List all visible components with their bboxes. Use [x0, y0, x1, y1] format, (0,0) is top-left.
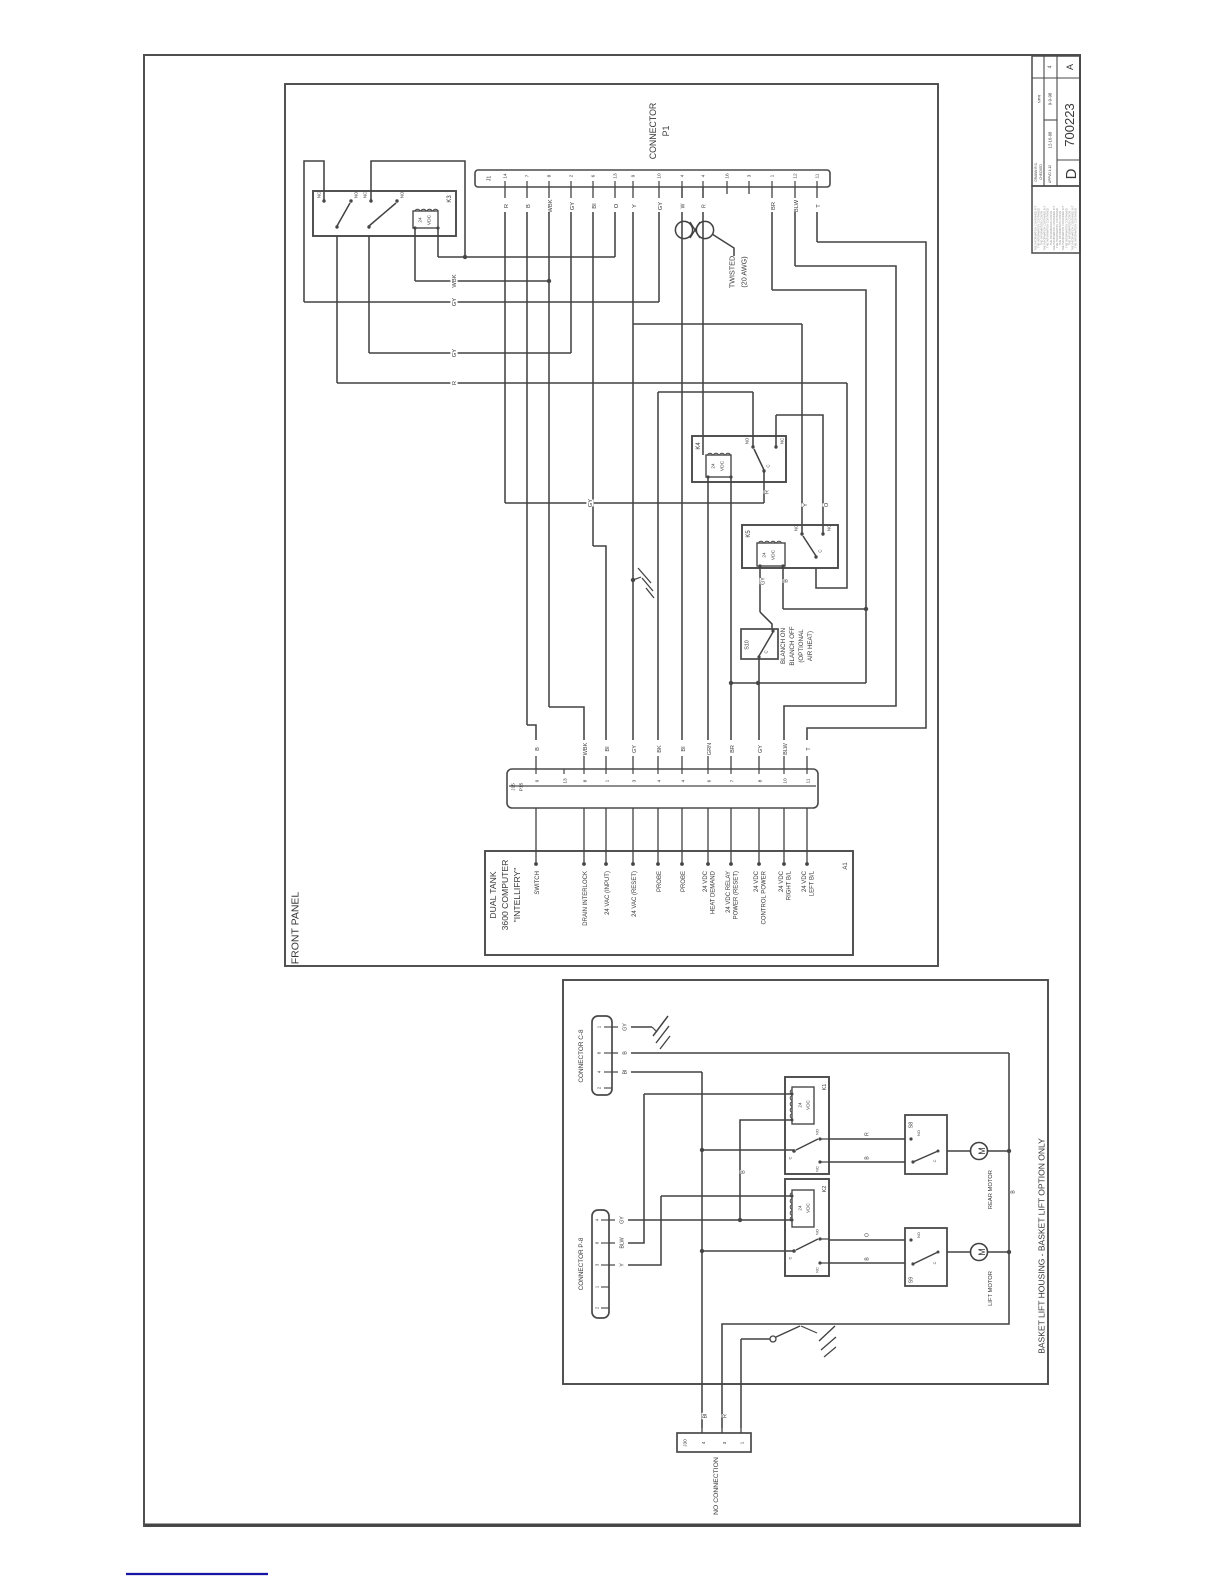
- svg-text:GRN: GRN: [707, 743, 713, 755]
- svg-text:R: R: [723, 1414, 729, 1418]
- svg-text:TWISTED: TWISTED: [727, 256, 736, 288]
- svg-text:11: 11: [806, 778, 812, 783]
- svg-text:B: B: [784, 579, 790, 583]
- svg-text:700223: 700223: [1062, 103, 1077, 146]
- svg-text:3600 COMPUTER: 3600 COMPUTER: [500, 860, 510, 931]
- svg-text:R: R: [504, 204, 510, 208]
- svg-text:C: C: [787, 1156, 792, 1159]
- svg-text:NC: NC: [779, 438, 784, 444]
- svg-text:NC: NC: [362, 192, 367, 198]
- svg-text:VDC: VDC: [805, 1099, 810, 1109]
- svg-text:BLANCH OFF: BLANCH OFF: [789, 626, 796, 665]
- svg-text:BASKET LIFT HOUSING - BASKET L: BASKET LIFT HOUSING - BASKET LIFT OPTION…: [1037, 1138, 1047, 1354]
- svg-text:B: B: [535, 747, 541, 751]
- svg-text:4: 4: [701, 1441, 706, 1444]
- svg-text:A: A: [1065, 64, 1075, 70]
- svg-text:24 VDC: 24 VDC: [779, 870, 785, 892]
- svg-text:BLANCH ON: BLANCH ON: [780, 628, 787, 664]
- svg-text:24 VAC (INPUT): 24 VAC (INPUT): [605, 871, 611, 915]
- svg-text:NO: NO: [744, 437, 749, 444]
- svg-text:GY: GY: [588, 499, 594, 508]
- svg-text:10: 10: [783, 778, 789, 784]
- svg-text:J30: J30: [683, 1439, 689, 1447]
- svg-text:D: D: [1063, 168, 1080, 179]
- svg-text:16: 16: [725, 173, 731, 179]
- svg-text:6: 6: [707, 779, 713, 782]
- svg-text:GY: GY: [761, 577, 767, 585]
- svg-text:DRAWN R.S.: DRAWN R.S.: [1034, 162, 1038, 181]
- svg-text:B: B: [526, 204, 532, 208]
- svg-text:BLW: BLW: [794, 199, 800, 212]
- svg-text:J1: J1: [487, 176, 493, 182]
- svg-text:13: 13: [613, 173, 619, 179]
- svg-text:PROBE: PROBE: [657, 871, 663, 892]
- svg-text:WBK: WBK: [548, 199, 554, 212]
- svg-text:(OPTIONAL: (OPTIONAL: [798, 629, 805, 663]
- svg-text:BI: BI: [605, 746, 611, 752]
- svg-text:R: R: [865, 1132, 871, 1136]
- svg-text:GY: GY: [658, 202, 664, 211]
- svg-text:1: 1: [739, 1441, 744, 1444]
- svg-text:NO: NO: [793, 524, 798, 531]
- svg-text:1: 1: [605, 779, 611, 782]
- svg-text:24: 24: [797, 1102, 802, 1108]
- svg-text:NO: NO: [814, 1129, 819, 1135]
- svg-text:O: O: [865, 1233, 871, 1237]
- svg-text:BR: BR: [771, 202, 777, 210]
- svg-text:14: 14: [503, 173, 509, 179]
- svg-text:9: 9: [535, 779, 541, 782]
- svg-text:C: C: [787, 1256, 792, 1259]
- svg-text:8: 8: [583, 779, 589, 782]
- svg-text:NC: NC: [826, 525, 831, 531]
- svg-text:S8: S8: [909, 1122, 915, 1128]
- svg-text:NC: NC: [316, 192, 321, 198]
- svg-text:VDC: VDC: [427, 214, 433, 225]
- svg-text:PROBE: PROBE: [681, 871, 687, 892]
- svg-text:LEFT B/L: LEFT B/L: [809, 870, 815, 896]
- svg-text:GY: GY: [570, 202, 576, 211]
- svg-text:REAR MOTOR: REAR MOTOR: [988, 1170, 994, 1209]
- svg-text:CONNECTOR: CONNECTOR: [648, 103, 658, 160]
- svg-text:FRONT PANEL: FRONT PANEL: [289, 892, 301, 965]
- svg-text:DRAIN INTERLOCK: DRAIN INTERLOCK: [583, 871, 589, 926]
- svg-text:Y: Y: [632, 204, 638, 208]
- svg-text:VDC: VDC: [720, 460, 726, 471]
- svg-text:GY: GY: [620, 1216, 626, 1224]
- svg-text:VDC: VDC: [805, 1202, 810, 1212]
- svg-text:3: 3: [722, 1441, 727, 1444]
- svg-text:T: T: [806, 747, 812, 751]
- svg-text:NO: NO: [814, 1229, 819, 1235]
- svg-text:CHECKED: CHECKED: [1039, 164, 1043, 180]
- svg-text:NPR: NPR: [1036, 95, 1041, 104]
- svg-text:4: 4: [701, 174, 707, 177]
- svg-text:BI: BI: [592, 203, 598, 209]
- svg-text:M: M: [977, 1248, 987, 1256]
- svg-text:T: T: [816, 204, 822, 208]
- svg-text:4: 4: [680, 174, 686, 177]
- svg-text:24 VDC: 24 VDC: [703, 870, 709, 892]
- svg-text:NO: NO: [399, 191, 404, 198]
- svg-text:7: 7: [730, 779, 736, 782]
- svg-text:24: 24: [797, 1205, 802, 1211]
- svg-text:8: 8: [547, 174, 553, 177]
- svg-text:POWER (RESET): POWER (RESET): [733, 871, 739, 919]
- svg-text:CONNECTOR P-8: CONNECTOR P-8: [578, 1237, 585, 1290]
- svg-text:R: R: [702, 204, 708, 208]
- svg-text:24: 24: [762, 552, 768, 558]
- svg-text:SWITCH: SWITCH: [535, 871, 541, 895]
- svg-text:6: 6: [591, 174, 597, 177]
- svg-text:Y: Y: [620, 1263, 626, 1267]
- svg-text:R: R: [765, 490, 771, 494]
- svg-text:9: 9: [631, 174, 637, 177]
- svg-text:AIR HEAT): AIR HEAT): [807, 631, 814, 661]
- svg-text:W: W: [681, 203, 687, 208]
- svg-text:VDC: VDC: [771, 549, 777, 560]
- svg-text:12-16-98: 12-16-98: [1047, 131, 1052, 148]
- svg-text:13: 13: [563, 778, 569, 784]
- svg-text:P1: P1: [661, 126, 671, 137]
- svg-text:24: 24: [418, 217, 424, 223]
- svg-text:C: C: [763, 650, 768, 653]
- svg-text:S9: S9: [909, 1277, 915, 1283]
- svg-text:S10: S10: [745, 640, 751, 650]
- svg-text:24: 24: [711, 463, 717, 469]
- svg-text:DUAL TANK: DUAL TANK: [488, 871, 498, 918]
- svg-text:RIGHT B/L: RIGHT B/L: [786, 870, 792, 900]
- svg-text:GY: GY: [758, 745, 764, 753]
- svg-text:24 VAC (RESET): 24 VAC (RESET): [632, 871, 638, 917]
- svg-text:GY: GY: [452, 349, 458, 358]
- svg-text:C: C: [765, 464, 770, 467]
- svg-text:APPVD 1-12: APPVD 1-12: [1048, 165, 1052, 183]
- svg-text:B: B: [741, 1170, 747, 1174]
- svg-text:BI: BI: [623, 1069, 629, 1074]
- svg-text:3: 3: [632, 779, 638, 782]
- svg-text:NO: NO: [917, 1130, 921, 1136]
- svg-text:BI: BI: [681, 746, 687, 752]
- svg-text:24 VDC: 24 VDC: [754, 870, 760, 892]
- svg-text:8: 8: [758, 779, 764, 782]
- svg-text:GY: GY: [623, 1023, 629, 1031]
- svg-text:12: 12: [793, 173, 799, 179]
- svg-text:LIFT MOTOR: LIFT MOTOR: [988, 1271, 994, 1306]
- svg-text:4: 4: [1048, 65, 1054, 68]
- svg-text:WBK: WBK: [452, 274, 458, 287]
- svg-text:BLW: BLW: [620, 1236, 626, 1248]
- svg-text:NC: NC: [814, 1166, 819, 1172]
- svg-text:HEAT DEMAND: HEAT DEMAND: [710, 870, 716, 914]
- svg-text:10: 10: [657, 173, 663, 179]
- svg-text:GY: GY: [632, 745, 638, 753]
- svg-text:3: 3: [747, 174, 753, 177]
- svg-text:K3: K3: [447, 195, 453, 203]
- svg-text:C: C: [817, 549, 822, 552]
- svg-text:K1: K1: [822, 1084, 828, 1091]
- svg-text:NO: NO: [353, 191, 358, 198]
- svg-text:CONTROL POWER: CONTROL POWER: [761, 870, 767, 924]
- svg-text:O: O: [824, 502, 830, 507]
- svg-text:NO CONNECTION: NO CONNECTION: [713, 1457, 720, 1515]
- svg-text:BLW: BLW: [783, 742, 789, 754]
- svg-text:BI: BI: [703, 1413, 709, 1418]
- svg-text:C: C: [933, 1159, 937, 1162]
- svg-text:R: R: [452, 381, 458, 385]
- svg-text:P15: P15: [519, 782, 525, 791]
- svg-text:BR: BR: [730, 745, 736, 753]
- svg-text:J15: J15: [511, 783, 517, 791]
- svg-text:GY: GY: [452, 298, 458, 307]
- svg-text:4: 4: [657, 779, 663, 782]
- svg-text:NC: NC: [814, 1267, 819, 1273]
- svg-text:9-9-98: 9-9-98: [1047, 92, 1052, 105]
- svg-text:24 VDC RELAY: 24 VDC RELAY: [726, 871, 732, 913]
- svg-text:K2: K2: [822, 1186, 828, 1193]
- svg-text:2: 2: [569, 174, 575, 177]
- svg-text:M: M: [977, 1147, 987, 1155]
- svg-text:Y: Y: [803, 503, 809, 507]
- svg-text:(20 AWG): (20 AWG): [739, 256, 748, 287]
- svg-text:O: O: [614, 203, 620, 208]
- svg-text:NO: NO: [917, 1232, 921, 1238]
- svg-text:4: 4: [681, 779, 687, 782]
- svg-text:K5: K5: [746, 530, 752, 538]
- svg-text:CONNECTOR C-8: CONNECTOR C-8: [578, 1029, 585, 1083]
- svg-text:"INTELLIFRY": "INTELLIFRY": [512, 868, 522, 923]
- svg-text:THE INFORMATION CONTAINED: THE INFORMATION CONTAINED: [1074, 208, 1078, 248]
- svg-text:A1: A1: [843, 862, 849, 870]
- svg-text:B: B: [623, 1051, 629, 1055]
- svg-text:1: 1: [770, 174, 776, 177]
- svg-text:7: 7: [525, 174, 531, 177]
- svg-text:11: 11: [815, 173, 821, 178]
- svg-text:24 VDC: 24 VDC: [802, 870, 808, 892]
- svg-text:WBK: WBK: [583, 742, 589, 755]
- svg-text:K4: K4: [696, 442, 702, 450]
- svg-text:BK: BK: [657, 745, 663, 753]
- svg-text:C: C: [933, 1261, 937, 1264]
